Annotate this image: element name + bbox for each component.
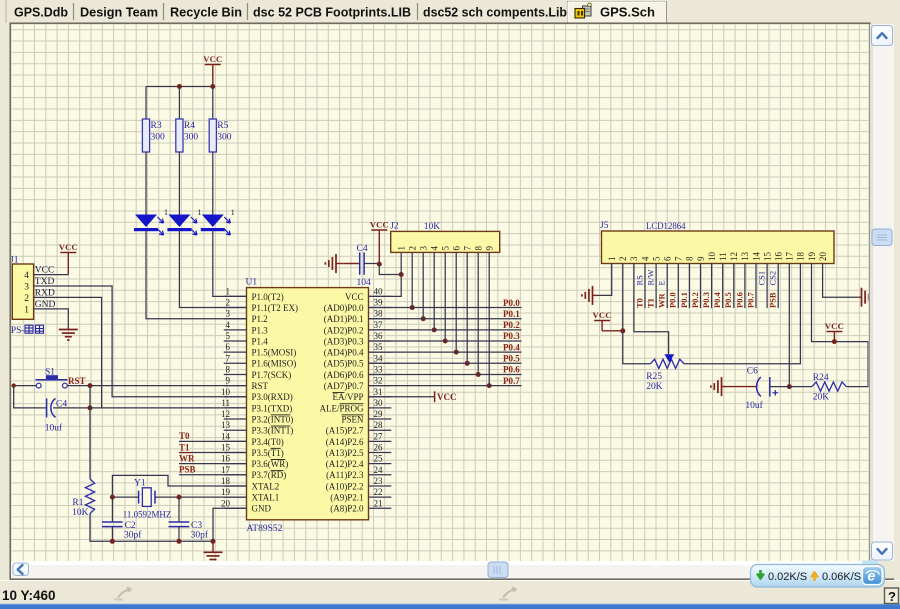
wire C3 to GND row [178, 527, 180, 542]
svg-text:P1.4: P1.4 [252, 336, 269, 346]
svg-text:(AD6)P0.6: (AD6)P0.6 [324, 370, 364, 380]
IC U1 AT89S52 [246, 278, 369, 535]
U1 pin 8 stub [224, 373, 247, 375]
U1 pin 18 stub [224, 485, 247, 487]
svg-text:P0.6: P0.6 [734, 292, 744, 308]
LED D3 [201, 208, 235, 235]
wire junction down to R1 [89, 386, 91, 479]
connector J1 (GPS) [10, 256, 34, 320]
svg-text:1: 1 [164, 208, 168, 217]
svg-text:7: 7 [226, 353, 231, 363]
svg-text:?: ? [888, 589, 896, 604]
svg-text:T0: T0 [634, 298, 644, 308]
svg-text:20: 20 [818, 252, 828, 262]
U1 pin 4 stub [224, 329, 247, 331]
svg-text:8: 8 [474, 246, 484, 251]
U1 pin 11 stub [224, 407, 247, 409]
capacitor C2 30pf [102, 521, 142, 541]
wire VCC to U1 pin40 [369, 264, 402, 296]
wire J2 pin8 to P0.6 [477, 252, 479, 374]
wire J5 pin9 stub [700, 264, 702, 309]
svg-text:R1: R1 [72, 498, 83, 508]
junction P0.0 [410, 305, 415, 310]
ground (C6) [711, 377, 726, 396]
svg-text:e: e [868, 568, 876, 584]
net label WR (J5 pin 6) [656, 293, 666, 309]
wire junction to R25 left [623, 331, 651, 364]
svg-text:Design Team: Design Team [80, 5, 158, 20]
svg-text:P0.6: P0.6 [503, 365, 520, 375]
U1 pin 7 stub [224, 362, 247, 364]
U1 pin 5 stub [224, 340, 247, 342]
svg-text:R3: R3 [151, 121, 162, 131]
svg-text:300: 300 [217, 133, 232, 143]
svg-text:P3.1(TXD): P3.1(TXD) [252, 403, 293, 413]
svg-text:10uf: 10uf [745, 400, 763, 411]
svg-text:T0: T0 [179, 431, 190, 441]
svg-text:12: 12 [221, 409, 230, 419]
wire top rail [146, 86, 213, 88]
svg-text:VCC: VCC [437, 392, 457, 402]
net label P0.7 (J5 pin 14) [745, 291, 755, 308]
wire J5 pin7 stub [677, 264, 679, 309]
U1 pin 35 stub [369, 351, 392, 353]
svg-text:32: 32 [374, 376, 383, 386]
svg-text:1: 1 [197, 208, 201, 217]
svg-text:P0.7: P0.7 [745, 291, 755, 308]
svg-text:17: 17 [221, 465, 231, 475]
wire R4 to LED [178, 152, 180, 215]
svg-text:1: 1 [24, 306, 29, 316]
junction GND row C3 [177, 539, 182, 544]
net label T1 (J5 pin 5) [646, 298, 656, 308]
U1 pin 38 stub [369, 318, 392, 320]
svg-text:(AD5)P0.5: (AD5)P0.5 [324, 359, 364, 369]
wire VCC rail to R4 [178, 87, 180, 120]
svg-text:10K: 10K [424, 222, 441, 232]
junction C4 row [88, 405, 93, 410]
net label PSB [179, 465, 196, 475]
svg-text:(AD0)P0.0: (AD0)P0.0 [324, 303, 364, 313]
svg-text:PSB: PSB [179, 465, 196, 475]
svg-text:VCC: VCC [345, 292, 364, 302]
wire J5 pin13 stub [744, 264, 746, 309]
UI vertical scrollbar [870, 24, 894, 561]
svg-text:8: 8 [685, 256, 695, 261]
svg-text:P1.7(SCK): P1.7(SCK) [252, 370, 292, 380]
svg-text:11: 11 [221, 398, 230, 408]
wire J5 pin10 stub [711, 264, 713, 309]
junction P0.4 [454, 350, 459, 355]
U1 pin 31 stub [369, 396, 392, 398]
wire crystal right to C3 [178, 497, 180, 522]
svg-text:(A9)P2.1: (A9)P2.1 [330, 493, 363, 503]
U1 pin 19 stub [224, 496, 247, 498]
junction crystal right [177, 495, 182, 500]
svg-text:27: 27 [374, 431, 384, 441]
svg-text:0.02K/S: 0.02K/S [768, 571, 807, 583]
U1 pin 12 stub [224, 418, 247, 420]
svg-text:Y1: Y1 [134, 479, 146, 489]
svg-text:35: 35 [374, 342, 384, 352]
svg-text:18: 18 [796, 252, 806, 262]
svg-text:ALE/PROG: ALE/PROG [319, 403, 364, 413]
wire crystal row [112, 496, 138, 498]
power port VCC (EA) [435, 391, 457, 402]
svg-text:P0.1: P0.1 [679, 292, 689, 308]
U1 pin 39 stub [369, 307, 392, 309]
wire U1 P0.1 row [369, 318, 522, 320]
svg-text:P1.1(T2 EX): P1.1(T2 EX) [252, 303, 299, 313]
U1 pin 26 stub [369, 452, 392, 454]
svg-text:dsc52 sch compents.Lib: dsc52 sch compents.Lib [423, 5, 567, 20]
U1 pin 14 stub [224, 440, 247, 442]
wire LED3 to U1 pin1 [213, 231, 247, 296]
wire U1 P0.3 row [369, 340, 522, 342]
svg-text:P1.3: P1.3 [252, 325, 269, 335]
wire VCC rail to R5 [212, 87, 214, 120]
svg-text:1: 1 [397, 246, 407, 251]
ground (J5 pin20) [859, 288, 872, 307]
resistor R24 20K [812, 373, 846, 402]
svg-text:EA/VPP: EA/VPP [332, 392, 363, 402]
net label P0.5 (J5 pin 12) [723, 292, 733, 308]
junction P0.1 [421, 316, 426, 321]
svg-text:P0.2: P0.2 [690, 292, 700, 308]
svg-text:12: 12 [729, 252, 739, 261]
net label PSB (J5 pin 16) [768, 292, 778, 308]
UI net speed widget [751, 561, 885, 588]
svg-text:VCC: VCC [592, 310, 611, 320]
svg-text:13: 13 [740, 252, 750, 262]
wire J5 pin20 to ground [823, 264, 859, 298]
U1 pin 27 stub [369, 440, 392, 442]
svg-text:(AD4)P0.4: (AD4)P0.4 [324, 348, 364, 358]
net label T0 (J5 pin 4) [634, 298, 644, 308]
switch S1 [36, 368, 68, 389]
net label T0 [179, 431, 190, 441]
svg-text:(AD2)P0.2: (AD2)P0.2 [324, 325, 364, 335]
wire J1 TXD to U1 pin10 [34, 286, 247, 397]
wire J2 pin9 to P0.7 [488, 252, 490, 385]
junction P0.7 [487, 383, 492, 388]
capacitor C3 30pf [169, 521, 209, 541]
svg-text:T1: T1 [179, 442, 190, 452]
U1 pin 10 stub [224, 396, 247, 398]
wire J2 pin4 to P0.2 [433, 252, 435, 329]
svg-text:P0.0: P0.0 [503, 298, 520, 308]
svg-text:28: 28 [374, 420, 384, 430]
U1 pin 6 stub [224, 351, 247, 353]
junction P0.5 [465, 361, 470, 366]
power symbol VCC (J1) [59, 242, 78, 275]
svg-text:J2: J2 [390, 222, 399, 232]
LED D2 [167, 208, 201, 235]
svg-text:4: 4 [640, 256, 650, 261]
svg-text:21: 21 [374, 498, 383, 508]
svg-text:R24: R24 [813, 373, 829, 383]
svg-text:3: 3 [419, 246, 429, 251]
wire R5 to LED [212, 152, 214, 215]
wire crystal left to C2 [111, 497, 113, 522]
svg-text:P3.2(INT0): P3.2(INT0) [252, 414, 294, 424]
wire net PSB to U1 pin17 [179, 474, 247, 476]
svg-text:P0.4: P0.4 [712, 291, 722, 308]
svg-text:20K: 20K [813, 392, 830, 402]
wire U1 P0.0 row [369, 307, 522, 309]
wire junction to R24 [789, 386, 812, 388]
svg-text:18: 18 [221, 476, 231, 486]
svg-text:CS1: CS1 [757, 271, 767, 286]
wire crystal to U1 XTAL1 (pin19) [179, 496, 247, 498]
svg-text:10K: 10K [72, 508, 89, 518]
svg-text:AT89S52: AT89S52 [247, 524, 283, 534]
svg-text:P0.5: P0.5 [723, 292, 733, 308]
svg-text:30pf: 30pf [191, 530, 209, 541]
resistor R3 300 [142, 119, 165, 152]
svg-text:1: 1 [231, 208, 235, 217]
wire J5 pin14 stub [755, 264, 757, 309]
svg-text:RS: RS [634, 275, 644, 286]
svg-text:10uf: 10uf [45, 423, 63, 434]
ground (C4 104) [325, 254, 343, 273]
ground (J1) [59, 330, 78, 341]
svg-text:dsc 52 PCB Footprints.LIB: dsc 52 PCB Footprints.LIB [253, 5, 411, 20]
junction VCC/pin2 [620, 328, 625, 333]
net label T1 [179, 442, 190, 452]
svg-text:(A11)P2.3: (A11)P2.3 [326, 470, 364, 480]
wire J5 pin3 to R25 wiper [634, 264, 669, 355]
svg-text:6: 6 [663, 256, 673, 261]
svg-text:XTAL2: XTAL2 [252, 481, 280, 491]
svg-text:WR: WR [657, 293, 667, 309]
svg-text:7: 7 [674, 256, 684, 261]
net label P0.3 (J5 pin 10) [701, 292, 711, 308]
U1 pin 30 stub [369, 407, 392, 409]
svg-text:P3.6(WR): P3.6(WR) [252, 459, 289, 469]
svg-text:VCC: VCC [59, 242, 78, 252]
svg-text:38: 38 [374, 309, 384, 319]
wire LED1 to U1 pin3 [146, 231, 247, 319]
svg-text:31: 31 [374, 387, 383, 397]
svg-text:GND: GND [252, 504, 272, 514]
svg-text:(A12)P2.4: (A12)P2.4 [326, 459, 364, 469]
U1 pin 16 stub [224, 463, 247, 465]
connector J5 LCD12864 [600, 221, 834, 264]
svg-text:(AD1)P0.1: (AD1)P0.1 [324, 314, 364, 324]
svg-text:30pf: 30pf [124, 530, 142, 541]
wire LED2 to U1 pin2 [179, 231, 246, 308]
resistor R5 300 [209, 119, 232, 152]
LED D1 [134, 208, 168, 235]
wire J1 RXD to U1 pin11 [34, 297, 102, 408]
svg-text:RST: RST [68, 376, 86, 386]
junction J2 pin1 [399, 272, 404, 277]
junction C6/pin17 [787, 384, 792, 389]
svg-text:14: 14 [221, 431, 231, 441]
svg-text:10 Y:460: 10 Y:460 [2, 588, 56, 603]
svg-text:P0.2: P0.2 [503, 320, 520, 330]
svg-text:XTAL1: XTAL1 [252, 493, 280, 503]
svg-text:10: 10 [707, 252, 717, 262]
wire J2 pin7 to P0.5 [466, 252, 468, 363]
svg-text:9: 9 [485, 246, 495, 251]
svg-text:0.06K/S: 0.06K/S [822, 571, 861, 583]
wire U1 P0.4 row [369, 351, 522, 353]
wire J2 pin2 to P0.0 [411, 252, 413, 307]
svg-text:300: 300 [184, 133, 199, 143]
svg-text:(A13)P2.5: (A13)P2.5 [326, 448, 364, 458]
wire J5 pin1 to ground [598, 264, 612, 296]
wire ground to C4 [343, 263, 359, 265]
U1 pin 37 stub [369, 329, 392, 331]
crystal Y1 11.0592MHZ [123, 479, 172, 521]
svg-text:P0.1: P0.1 [503, 309, 520, 319]
svg-text:P1.5(MOSI): P1.5(MOSI) [252, 348, 297, 358]
junction VCC/C4 [377, 262, 382, 267]
svg-text:19: 19 [221, 487, 231, 497]
svg-text:P1.0(T2): P1.0(T2) [252, 292, 284, 302]
wire U1 P0.2 row [369, 329, 522, 331]
wire U1 XTAL2 (pin18) to crystal left [112, 475, 246, 497]
junction RST/R1 [88, 383, 93, 388]
potentiometer R25 20K [646, 354, 684, 392]
svg-text:R4: R4 [184, 121, 195, 131]
wire ground to C6 [726, 386, 757, 388]
U1 pin 1 stub [224, 295, 247, 297]
svg-text:P3.7(RD): P3.7(RD) [252, 470, 287, 480]
svg-text:PSB: PSB [768, 292, 778, 308]
svg-text:17: 17 [785, 252, 795, 262]
wire R1 to GND row [90, 514, 213, 542]
ground (crystal) [204, 541, 223, 563]
wire U1 P0.5 row [369, 362, 522, 364]
svg-text:4: 4 [24, 271, 29, 281]
svg-text:37: 37 [374, 320, 384, 330]
svg-text:5: 5 [226, 331, 231, 341]
wire left edge to S1 [14, 385, 37, 387]
U1 pin 2 stub [224, 307, 247, 309]
svg-text:(A10)P2.2: (A10)P2.2 [326, 481, 364, 491]
svg-text:13: 13 [221, 420, 231, 430]
svg-text:VCC: VCC [370, 220, 389, 230]
U1 pin 29 stub [369, 418, 392, 420]
svg-text:P3.0(RXD): P3.0(RXD) [252, 392, 293, 402]
svg-text:P0.7: P0.7 [503, 376, 520, 386]
wire J2 pin1 down [400, 252, 402, 274]
wire net T1 to U1 pin15 [179, 452, 247, 454]
svg-text:11.0592MHZ: 11.0592MHZ [123, 511, 172, 521]
capacitor C4 104 [357, 244, 372, 288]
net label P0.4 (J5 pin 11) [712, 291, 722, 308]
svg-text:20K: 20K [646, 382, 663, 392]
svg-text:300: 300 [151, 133, 166, 143]
U1 pin 32 stub [369, 385, 392, 387]
ground (J5 pin1) [582, 286, 598, 305]
wire U1 GND (pin20) [213, 508, 247, 541]
U1 pin 40 stub [369, 295, 392, 297]
svg-text:(AD3)P0.3: (AD3)P0.3 [324, 336, 364, 346]
svg-text:29: 29 [374, 409, 384, 419]
junction VCC/R24 [832, 339, 837, 344]
svg-text:6: 6 [452, 246, 462, 251]
svg-text:25: 25 [374, 454, 384, 464]
U1 pin 9 stub [224, 385, 247, 387]
label GPS-模块 [4, 325, 44, 336]
power symbol VCC (U1) [370, 220, 389, 265]
svg-text:4: 4 [226, 320, 231, 330]
wire junction to U1 pin11 row [90, 407, 247, 409]
svg-text:104: 104 [357, 278, 372, 288]
svg-text:5: 5 [651, 256, 661, 261]
U1 pin 15 stub [224, 452, 247, 454]
svg-text:GPS.Ddb: GPS.Ddb [14, 5, 68, 20]
U1 pin 17 stub [224, 474, 247, 476]
UI taskbar edge [0, 604, 900, 609]
resistor network J2 10K [390, 222, 500, 253]
svg-text:2: 2 [408, 246, 418, 251]
svg-text:VCC: VCC [203, 54, 222, 64]
svg-text:P3.5(T1): P3.5(T1) [252, 448, 284, 458]
resistor R4 300 [176, 119, 199, 152]
svg-text:U1: U1 [246, 278, 258, 288]
svg-text:CS2: CS2 [768, 271, 778, 286]
svg-text:14: 14 [751, 252, 761, 262]
wire J5 pin6 stub [666, 264, 668, 309]
svg-text:P1.2: P1.2 [252, 314, 268, 324]
junction left edge [12, 383, 16, 387]
svg-text:2: 2 [226, 298, 231, 308]
capacitor C4 10uf [45, 398, 68, 433]
wire J2 pin5 to P0.3 [444, 252, 446, 341]
wire U1 P0.6 row [369, 373, 522, 375]
svg-text:P0.0: P0.0 [668, 292, 678, 308]
svg-text:30: 30 [374, 398, 384, 408]
wire J5 pin16 stub [777, 264, 779, 309]
wire U1 EA/VPP to VCC [369, 396, 435, 398]
wire R24 to J5 pin19 [812, 264, 869, 387]
wire J5 pin8 stub [688, 264, 690, 309]
svg-text:26: 26 [374, 443, 384, 453]
svg-text:C3: C3 [191, 521, 202, 531]
svg-text:7: 7 [463, 246, 473, 251]
wire J2 pin6 to P0.4 [455, 252, 457, 352]
svg-text:(A14)P2.6: (A14)P2.6 [326, 437, 364, 447]
svg-text:E: E [657, 280, 667, 285]
svg-text:(A8)P2.0: (A8)P2.0 [330, 504, 364, 514]
svg-text:9: 9 [696, 256, 706, 261]
svg-text:C2: C2 [125, 521, 136, 531]
wire net T0 to U1 pin14 [179, 440, 247, 442]
svg-text:23: 23 [374, 476, 384, 486]
svg-text:10: 10 [221, 387, 231, 397]
net label P0.0 (J5 pin 7) [668, 292, 678, 308]
svg-text:P0.5: P0.5 [503, 354, 520, 364]
svg-text:15: 15 [762, 252, 772, 262]
junction GND row C2 [110, 539, 115, 544]
svg-text:P1.6(MISO): P1.6(MISO) [252, 359, 297, 369]
wire C4 to VCC stem [364, 263, 379, 265]
svg-text:11: 11 [718, 252, 728, 261]
U1 pin 20 stub [224, 507, 247, 509]
svg-text:3: 3 [226, 309, 231, 319]
net label P0.6 (J5 pin 13) [734, 292, 744, 308]
U1 pin 3 stub [224, 318, 247, 320]
svg-text:2: 2 [24, 294, 29, 304]
U1 pin 24 stub [369, 474, 392, 476]
UI horizontal scrollbar [11, 561, 869, 579]
U1 pin 34 stub [369, 362, 392, 364]
